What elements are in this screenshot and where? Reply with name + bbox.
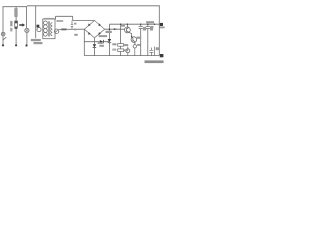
label out1 <box>150 26 153 28</box>
zener wire <box>108 24 110 55</box>
switch arrow S2 <box>19 23 25 26</box>
rail positive <box>109 23 159 25</box>
diode D2 <box>99 23 101 26</box>
resistor R2 <box>118 44 124 47</box>
diode D1 <box>88 23 90 26</box>
diode D5 <box>100 40 103 43</box>
resistor chain wire <box>120 24 122 55</box>
wire bridge bottom <box>84 38 109 42</box>
fuse F1 <box>15 9 18 17</box>
transformer T1 primary winding <box>44 21 48 25</box>
wire bridge right to base <box>105 28 125 30</box>
label left of R3 <box>112 49 116 51</box>
transistor TR2 <box>131 37 137 43</box>
wire top border bus <box>3 5 160 8</box>
capacitor C3 <box>146 24 150 55</box>
switch arm SW <box>3 37 6 40</box>
rail junction dots <box>127 24 128 25</box>
base arrow <box>114 28 117 30</box>
wire lower branch <box>93 42 95 56</box>
label left of R2 <box>112 43 116 45</box>
label degauss <box>31 39 41 41</box>
transformer T1 secondary winding <box>51 23 53 36</box>
led D6 <box>126 49 130 53</box>
wire right small <box>154 47 156 56</box>
wire secondary bottom to bridge <box>59 28 85 30</box>
zener ZD1 <box>108 39 112 42</box>
label bridge 2 <box>99 35 108 37</box>
wire bridge left to bus <box>83 29 85 55</box>
relay contact blob <box>15 27 18 29</box>
label near lamp1 <box>10 28 12 32</box>
meter M1 <box>54 29 58 33</box>
label C3 <box>150 27 153 31</box>
led D7 <box>133 45 136 48</box>
label TR right <box>56 20 63 22</box>
label transformer top <box>44 18 54 20</box>
resistor R1 <box>15 21 18 27</box>
diode D4 <box>88 32 90 35</box>
label plus <box>159 27 164 29</box>
wire column 4 <box>35 6 37 38</box>
diode D8 down <box>93 44 97 47</box>
wire column 3 <box>26 6 28 44</box>
label C2 <box>143 27 146 31</box>
diode D3 <box>99 32 101 35</box>
bridge rectifier B1 <box>84 21 104 38</box>
transformer T1 box <box>43 19 55 39</box>
capacitor C1 on drop <box>71 21 73 30</box>
wire bottom bus <box>84 55 159 57</box>
label TR2 <box>137 37 142 39</box>
label R3 <box>124 49 128 51</box>
terminal ball 1 <box>2 44 4 46</box>
lamp LP1 <box>1 32 5 36</box>
label TR1 <box>120 25 125 27</box>
transistor TR1 <box>125 27 131 33</box>
label D5 <box>98 42 103 44</box>
capacitor C2 <box>139 24 143 55</box>
label R2 <box>124 44 128 46</box>
transformer T1 core <box>49 21 50 36</box>
label 230V <box>34 42 43 44</box>
wire column 2 <box>15 6 17 44</box>
terminal ball 2 <box>15 44 17 46</box>
resistor R3 <box>118 49 124 52</box>
wire L line left <box>2 7 4 45</box>
label bridge 1 <box>106 31 112 33</box>
switch S1 contact <box>37 28 41 32</box>
wire secondary top to bridge <box>56 16 95 20</box>
switch blob column4 <box>37 25 40 28</box>
label C4 <box>156 47 160 50</box>
terminal positive <box>160 23 163 26</box>
wire right border <box>158 6 160 56</box>
terminal negative <box>160 54 164 57</box>
terminal ball 3 <box>25 44 27 46</box>
lamp LP2 <box>25 28 29 32</box>
label R1 vertical <box>10 21 12 26</box>
label D7 <box>137 44 140 46</box>
label C1 right <box>74 23 76 25</box>
fuse blob F2 <box>61 29 66 31</box>
caption watermark <box>145 60 164 63</box>
capacitor C4 <box>149 48 153 56</box>
label 13.8V <box>146 21 154 23</box>
